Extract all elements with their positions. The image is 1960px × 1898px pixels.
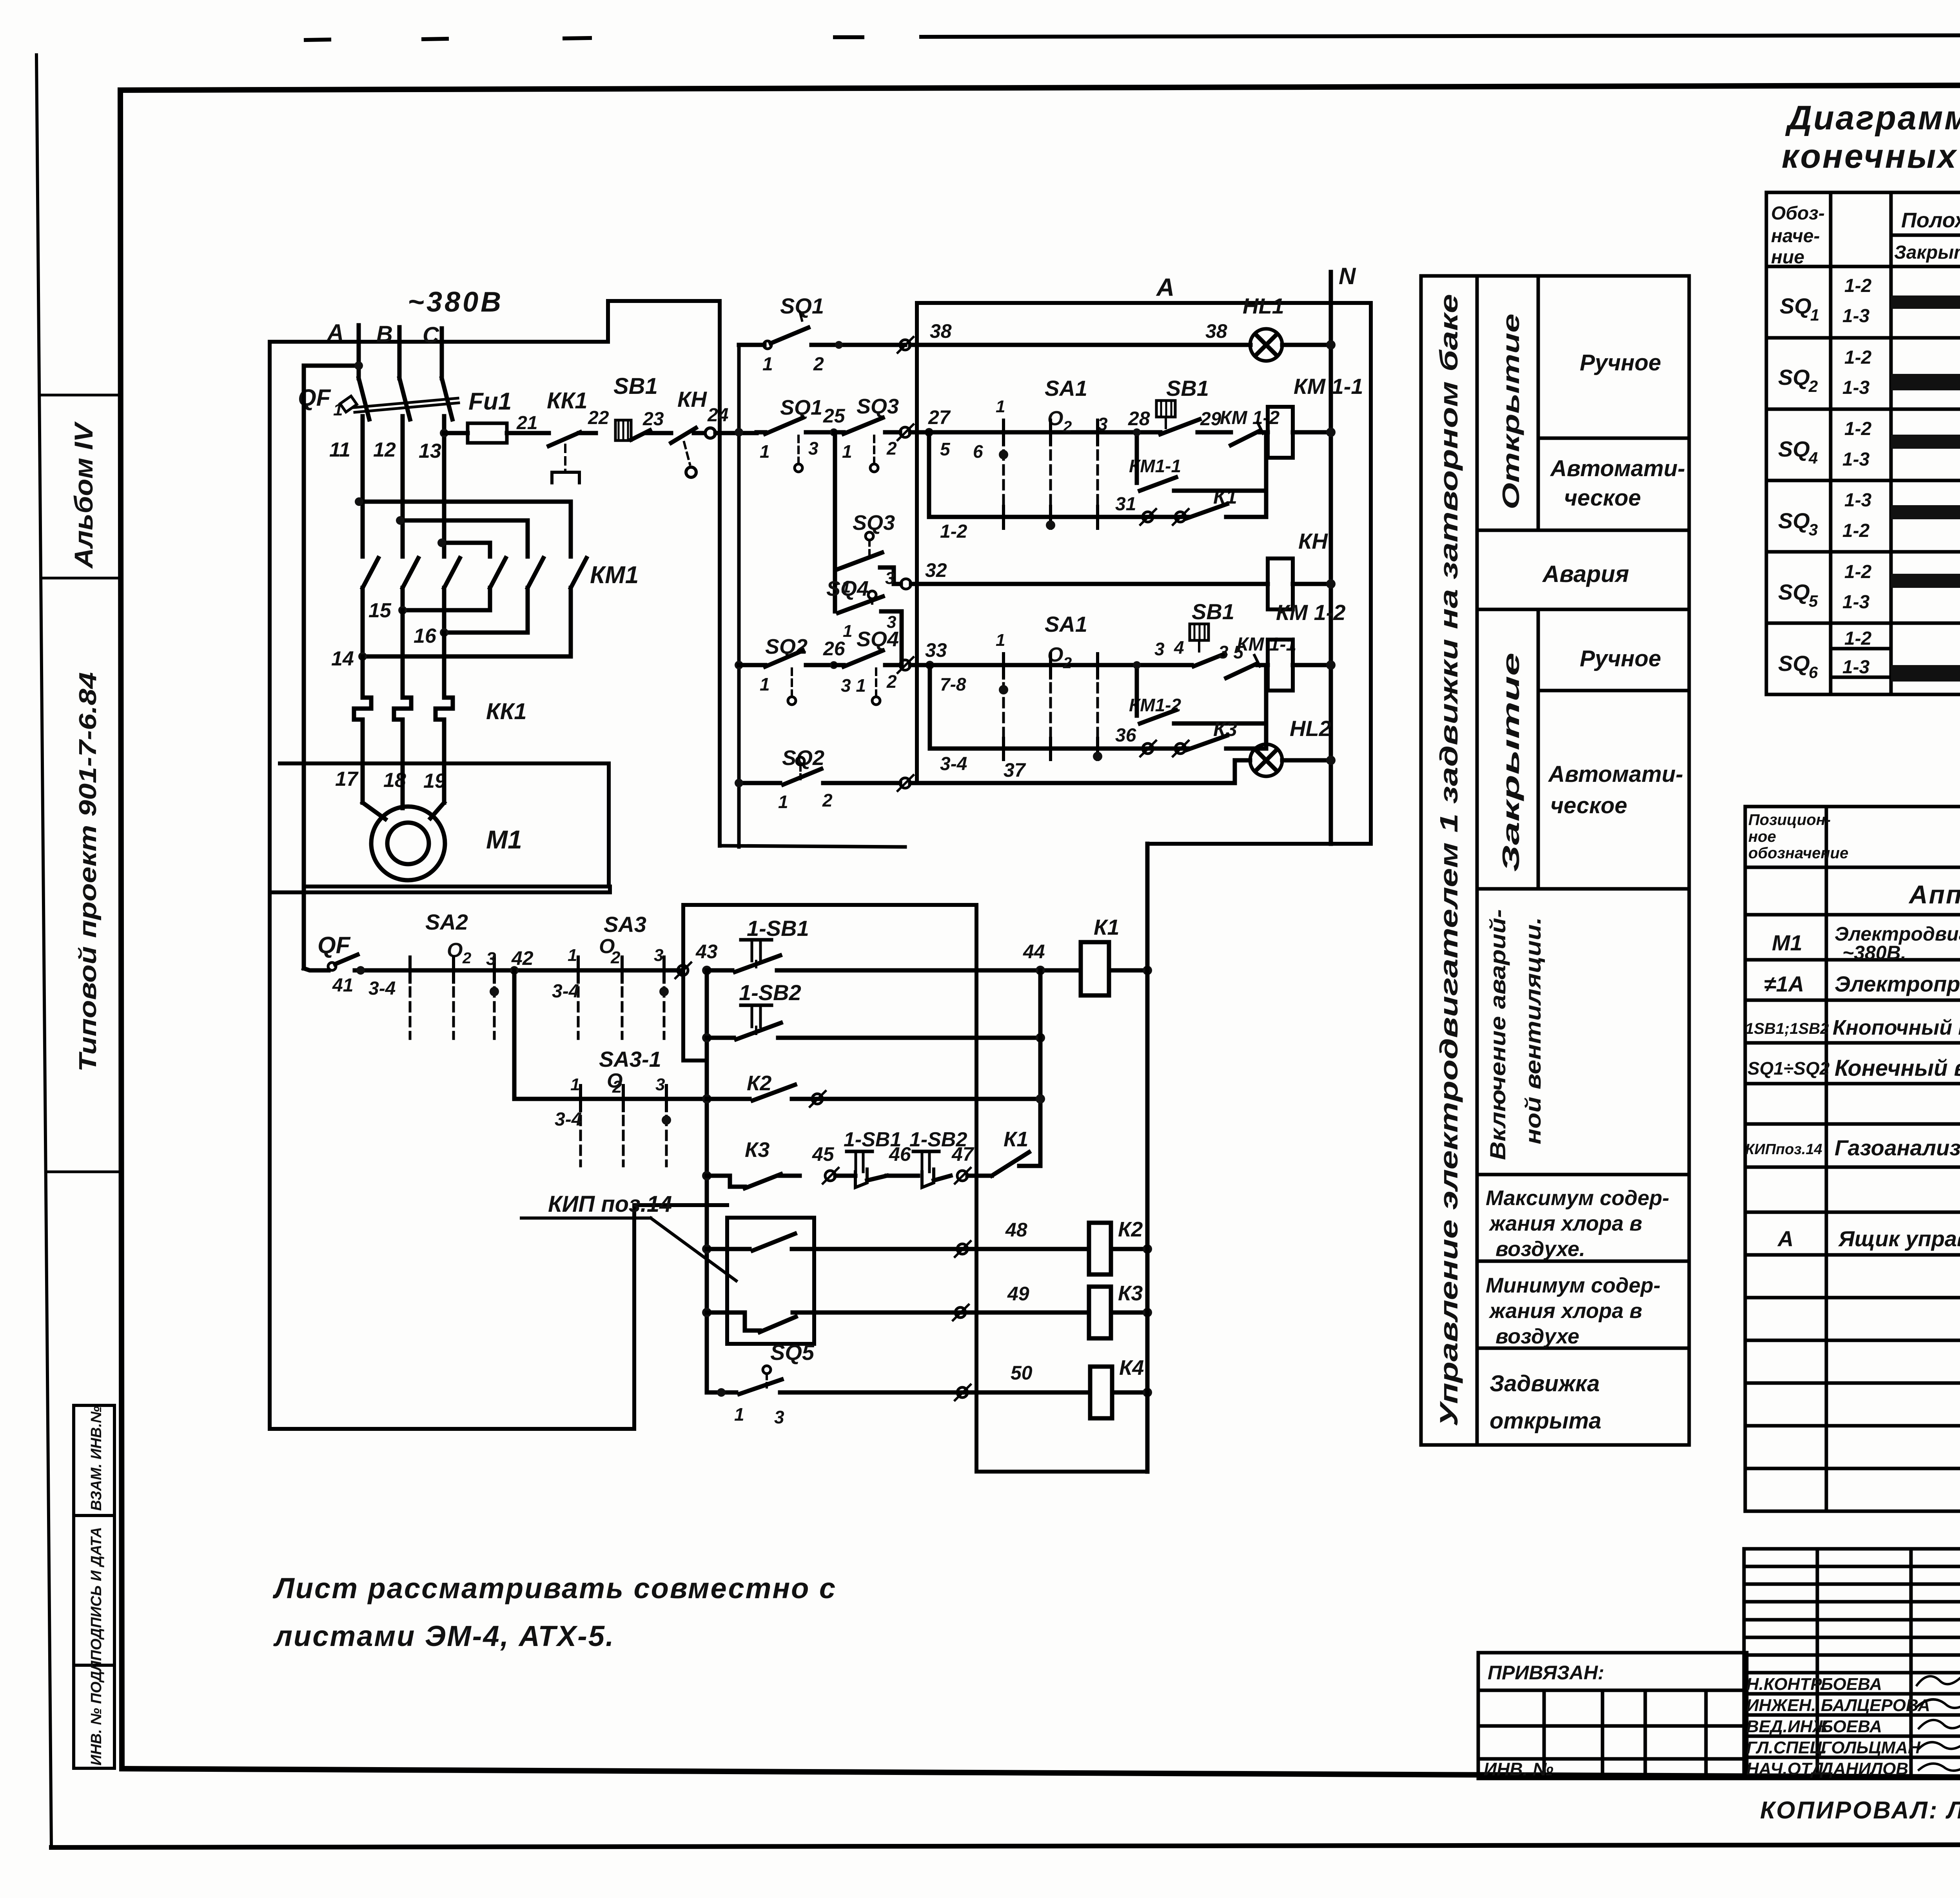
svg-text:Альбом IV: Альбом IV: [69, 421, 98, 569]
wire: right supply bus: [1145, 844, 1150, 1472]
svg-text:Ящик управления ЯОМ-5901-2674: Ящик управления ЯОМ-5901-2674-УХЛ4: [1838, 1226, 1960, 1251]
svg-text:КМ 1-2: КМ 1-2: [1220, 408, 1280, 428]
svg-text:≠1А: ≠1А: [1764, 972, 1804, 996]
svg-text:Аппаратура по месту.: Аппаратура по месту.: [1908, 880, 1960, 909]
function table cell: Автоматическое (открытие): [1550, 456, 1685, 511]
svg-text:2: 2: [822, 790, 833, 810]
svg-text:конечных выключателей.: конечных выключателей.: [1782, 138, 1960, 175]
svg-text:SQ3: SQ3: [857, 395, 899, 418]
parts row 1SB1;1SB2: [1745, 1016, 1960, 1039]
svg-text:С: С: [423, 323, 439, 348]
svg-text:Закрытие: Закрытие: [1498, 653, 1524, 872]
function table cell: Максимум содержания хлора: [1486, 1186, 1669, 1261]
svg-text:К1: К1: [1004, 1128, 1028, 1151]
svg-text:1-SB2: 1-SB2: [739, 980, 801, 1005]
svg-text:жания хлора в: жания хлора в: [1488, 1299, 1642, 1323]
svg-text:ИНЖЕН.: ИНЖЕН.: [1746, 1696, 1816, 1715]
svg-text:1-3: 1-3: [1844, 490, 1872, 511]
thermal relay KK1 heaters: [354, 698, 527, 763]
svg-text:SQ: SQ: [1778, 365, 1810, 390]
svg-text:SQ1: SQ1: [780, 294, 824, 318]
function table cell: Включение аварийной вентиляции: [1485, 909, 1545, 1160]
svg-text:Диаграмма замыкания: Диаграмма замыкания: [1785, 99, 1960, 137]
circuit breaker QF1: [298, 378, 459, 419]
lower box bottom outline: [270, 1205, 727, 1429]
svg-text:Закрыто: Закрыто: [1894, 242, 1960, 263]
svg-text:1: 1: [762, 354, 773, 375]
diagram header: Обозначение: [1771, 203, 1825, 268]
gas analyzer KIP poz.14 label: [521, 1191, 736, 1281]
pushbutton 1-SB2 (seal row): [702, 980, 1045, 1042]
svg-text:Автомати-: Автомати-: [1548, 761, 1683, 787]
svg-text:КК1: КК1: [547, 388, 588, 413]
seal contact KM1-1 (branch): [1129, 428, 1266, 491]
terminal ø (50): [955, 1385, 971, 1400]
svg-text:1-3: 1-3: [1842, 306, 1870, 326]
svg-text:К2: К2: [1118, 1218, 1143, 1241]
parts list table grid: [1745, 807, 1960, 1511]
svg-text:23: 23: [642, 409, 664, 430]
svg-text:2: 2: [886, 438, 897, 459]
wire: row to fuse: [444, 431, 468, 435]
svg-text:3-4: 3-4: [552, 981, 579, 1002]
wire: phase C stub: [440, 328, 444, 378]
row SQ1: [1780, 276, 1960, 326]
parts row 1A: [1764, 972, 1960, 996]
svg-text:44: 44: [1023, 941, 1045, 963]
fuse Fu1: [468, 388, 549, 443]
switch SA1 (lower): [996, 612, 1184, 745]
svg-text:SQ2: SQ2: [765, 635, 808, 658]
sheet outer top edge line: [306, 34, 1960, 40]
kopiroval line: [1760, 1795, 1960, 1854]
node 43: [695, 941, 718, 975]
switch SA2: [392, 910, 682, 1039]
svg-text:Газоанализатор ФЛГ— 3М: Газоанализатор ФЛГ— 3М: [1835, 1135, 1960, 1160]
function table cell: Автоматическое (закрытие): [1548, 761, 1683, 818]
signature rows text: [1746, 1675, 1930, 1778]
svg-text:Лист рассматривать совместно: Лист рассматривать совместно с: [272, 1572, 837, 1604]
svg-text:SA3: SA3: [604, 912, 646, 937]
svg-text:ние: ние: [1771, 247, 1804, 268]
function table grid: [1421, 276, 1689, 1445]
svg-text:КН: КН: [677, 387, 707, 412]
svg-text:Кнопочный пост ПКЕ-222-2 УЗ Т: Кнопочный пост ПКЕ-222-2 УЗ ТУ16 526.216…: [1833, 1016, 1960, 1039]
svg-text:42: 42: [511, 947, 534, 969]
svg-text:SQ: SQ: [1780, 294, 1811, 318]
node 26: [823, 638, 846, 669]
svg-text:2: 2: [1063, 654, 1072, 672]
parts row M1: [1772, 923, 1960, 964]
svg-text:1: 1: [1810, 306, 1819, 324]
title block: signature table grid: [1744, 1549, 1960, 1778]
svg-text:жания хлора в: жания хлора в: [1488, 1212, 1642, 1235]
svg-text:КИПпоз.14: КИПпоз.14: [1745, 1141, 1822, 1158]
svg-text:М1: М1: [1772, 930, 1802, 955]
svg-text:1-2: 1-2: [1842, 520, 1870, 541]
terminal ø (K2 row): [810, 1091, 826, 1107]
relay contact K2 (row): [702, 1071, 1045, 1104]
KIP upper contact (max chlorine): [702, 1234, 1089, 1254]
svg-text:открыта: открыта: [1490, 1408, 1601, 1434]
svg-text:29: 29: [1200, 409, 1221, 430]
svg-text:ИНВ. №: ИНВ. №: [1484, 1759, 1553, 1779]
switch SA3: [552, 912, 669, 1039]
svg-text:1: 1: [778, 792, 788, 812]
svg-text:ное: ное: [1748, 828, 1776, 845]
svg-text:Задвижка: Задвижка: [1490, 1371, 1600, 1396]
node 25: [823, 405, 846, 436]
svg-text:К3: К3: [745, 1138, 769, 1162]
svg-text:SQ3: SQ3: [853, 511, 895, 535]
svg-text:45: 45: [812, 1143, 835, 1165]
svg-text:14: 14: [331, 647, 354, 670]
svg-text:38: 38: [1205, 320, 1227, 342]
svg-text:38: 38: [930, 320, 952, 342]
limit switch box (left sub-box): [720, 348, 905, 847]
svg-text:ГОЛЬЦМАН: ГОЛЬЦМАН: [1821, 1738, 1921, 1757]
svg-text:Максимум содер-: Максимум содер-: [1486, 1186, 1669, 1210]
limit switch SQ5: [707, 1340, 1090, 1427]
svg-text:SQ4: SQ4: [857, 627, 899, 651]
svg-text:ческое: ческое: [1550, 793, 1627, 818]
limit switch SQ2 (row 37): [735, 746, 900, 812]
svg-text:3: 3: [774, 1407, 784, 1427]
svg-text:25: 25: [823, 405, 846, 427]
svg-text:2: 2: [1063, 418, 1072, 435]
KIP lower contact (min chlorine): [702, 1308, 1089, 1332]
svg-text:наче-: наче-: [1771, 226, 1820, 247]
svg-text:Ручное: Ручное: [1580, 646, 1661, 671]
svg-text:1-SB1: 1-SB1: [747, 916, 809, 941]
relay contact K1 (seal to 44): [967, 1128, 1040, 1176]
parts header: Позиционное обозначение: [1748, 811, 1848, 862]
svg-text:БАЛЦЕРОВА: БАЛЦЕРОВА: [1821, 1696, 1930, 1715]
svg-text:1-2: 1-2: [1844, 419, 1872, 439]
limit switch SQ1 (row 27): [760, 396, 834, 472]
svg-text:49: 49: [1007, 1283, 1029, 1305]
title block: privyazan table: [1478, 1653, 1747, 1778]
parts row KIP poz.14: [1745, 1135, 1960, 1160]
svg-text:33: 33: [925, 639, 947, 661]
pushbutton SB1 (power row): [613, 373, 666, 441]
svg-text:1: 1: [996, 397, 1005, 416]
svg-text:1: 1: [996, 631, 1005, 650]
svg-text:1-3: 1-3: [1842, 657, 1870, 678]
svg-text:НАЧ.ОТД: НАЧ.ОТД: [1746, 1759, 1824, 1778]
svg-text:КН: КН: [1298, 529, 1328, 553]
signature squiggles: [1917, 1675, 1960, 1771]
wire row 37 to HL2: [910, 760, 1250, 783]
svg-text:КИП поз.14: КИП поз.14: [548, 1191, 672, 1217]
switch SA3-1: [514, 970, 707, 1166]
svg-text:Электропривод задвижки 87А008: Электропривод задвижки 87А008: [1835, 972, 1960, 996]
terminal ø pair on branch: [1140, 509, 1189, 525]
terminal ø (48): [955, 1241, 971, 1257]
svg-text:3: 3: [486, 948, 496, 969]
sheet outer left edge line: [36, 55, 51, 1847]
svg-text:21: 21: [516, 413, 537, 433]
svg-text:SQ1÷SQ2: SQ1÷SQ2: [1748, 1058, 1830, 1079]
svg-text:3-4: 3-4: [555, 1109, 582, 1130]
svg-text:4: 4: [1808, 449, 1818, 467]
node 33: [925, 639, 947, 669]
svg-text:Fu1: Fu1: [468, 388, 512, 415]
power box outline: [270, 342, 610, 1429]
wire: vertical feed 43: [705, 970, 709, 1392]
svg-text:1-2: 1-2: [1844, 347, 1872, 368]
wire: phase B drop to KM1: [401, 416, 405, 557]
wire: tie vertical 44 column: [1038, 970, 1043, 1161]
box A (control cabinet) outline: [917, 303, 1371, 844]
svg-text:К2: К2: [747, 1071, 771, 1095]
svg-text:1: 1: [842, 441, 852, 462]
left stamp column boxes: [74, 1405, 114, 1768]
wire: phase A stub: [357, 325, 361, 378]
row SQ6: [1778, 628, 1960, 682]
wire: phase C drop to KM1: [442, 416, 446, 557]
svg-text:Минимум содер-: Минимум содер-: [1486, 1274, 1661, 1297]
svg-text:50: 50: [1011, 1362, 1033, 1384]
svg-text:HL1: HL1: [1243, 294, 1284, 318]
terminal ø (row 37): [898, 775, 913, 791]
svg-text:ПРИВЯЗАН:: ПРИВЯЗАН:: [1488, 1662, 1604, 1684]
svg-text:6: 6: [973, 441, 983, 462]
svg-text:15: 15: [368, 599, 392, 622]
svg-text:1-3: 1-3: [1842, 449, 1870, 470]
NC contact KM1-2 (row 27): [1220, 408, 1280, 445]
coil KM1-2: [1268, 600, 1346, 691]
note text bottom-left: [272, 1572, 837, 1652]
terminal ø (45): [823, 1168, 838, 1184]
svg-text:SA2: SA2: [425, 910, 468, 934]
contactor KM1 main contacts: [355, 497, 639, 661]
wire: phases from KM1 to KK1 heaters: [363, 610, 444, 698]
svg-text:46: 46: [889, 1143, 911, 1165]
svg-text:2: 2: [813, 354, 824, 375]
svg-text:37: 37: [1004, 759, 1026, 781]
svg-text:27: 27: [928, 406, 951, 428]
svg-text:М1: М1: [486, 825, 522, 854]
svg-text:SQ5: SQ5: [770, 1340, 815, 1365]
middle limit switch SQ4: [826, 577, 902, 665]
limit switch SQ3 (row 27): [834, 395, 900, 472]
svg-text:26: 26: [823, 638, 846, 660]
node 24 terminal: [705, 405, 757, 438]
lamp HL1: [1243, 294, 1336, 361]
svg-text:SB1: SB1: [1166, 376, 1209, 401]
function table cell: Минимум содержания хлора: [1486, 1274, 1661, 1348]
svg-text:1: 1: [734, 1404, 744, 1425]
svg-text:Открытие: Открытие: [1498, 314, 1524, 509]
wire: feed jog from power box to control section: [608, 301, 720, 846]
svg-text:ИНВ. № ПОДЛ: ИНВ. № ПОДЛ: [88, 1661, 105, 1766]
svg-text:2: 2: [612, 1077, 622, 1097]
svg-text:Положение задвижки: Положение задвижки: [1901, 208, 1960, 232]
wire row 38 to lamp: [910, 343, 1250, 347]
svg-text:КМ 1-2: КМ 1-2: [1276, 600, 1346, 625]
node 44: [1023, 941, 1045, 975]
pushbutton 1-SB2 (NC in row): [887, 1128, 967, 1187]
node 27: [925, 406, 951, 437]
svg-text:22: 22: [588, 408, 609, 428]
svg-text:Включение аварий-: Включение аварий-: [1485, 909, 1510, 1160]
svg-text:SQ4: SQ4: [826, 577, 869, 600]
parts row A (cabinet): [1777, 1226, 1960, 1251]
svg-text:Авария: Авария: [1542, 561, 1629, 587]
svg-text:К1: К1: [1094, 915, 1120, 939]
svg-text:3: 3: [1154, 639, 1165, 659]
svg-text:А: А: [1777, 1226, 1793, 1251]
relay contact KH (power row): [666, 387, 707, 477]
svg-text:КМ1: КМ1: [590, 562, 639, 589]
svg-text:48: 48: [1005, 1219, 1027, 1241]
relay contact K1 (branch): [1186, 486, 1266, 518]
svg-text:N: N: [1339, 263, 1356, 289]
tie vertical to coil input: [1264, 432, 1269, 517]
svg-text:ческое: ческое: [1564, 485, 1641, 511]
svg-text:32: 32: [925, 559, 947, 581]
svg-text:1: 1: [568, 946, 577, 965]
svg-text:ГЛ.СПЕЦ.: ГЛ.СПЕЦ.: [1746, 1738, 1827, 1757]
svg-text:SQ: SQ: [1778, 580, 1810, 604]
svg-text:К4: К4: [1119, 1356, 1144, 1380]
svg-text:3 1: 3 1: [841, 675, 866, 696]
svg-text:6: 6: [1809, 663, 1818, 682]
switch SA1 (upper): [996, 376, 1108, 513]
svg-text:SA1: SA1: [1045, 376, 1087, 401]
svg-text:SQ: SQ: [1778, 651, 1810, 676]
pushbutton 1-SB1 (NC in row): [835, 1128, 901, 1187]
node 42: [510, 947, 534, 975]
function table cell: Задвижка открыта: [1490, 1371, 1601, 1434]
svg-text:2: 2: [886, 671, 897, 692]
svg-text:БОЕВА: БОЕВА: [1821, 1717, 1882, 1736]
svg-text:3: 3: [655, 1075, 665, 1094]
svg-text:43: 43: [695, 941, 718, 963]
svg-text:1-2: 1-2: [1844, 562, 1872, 582]
wire: phase B stub: [397, 327, 402, 378]
tie vertical to coil2 input: [1264, 665, 1269, 749]
relay coil K2: [1089, 1218, 1152, 1274]
svg-text:БОЕВА: БОЕВА: [1821, 1675, 1882, 1694]
wire: phase A drop to KM1: [361, 416, 365, 557]
svg-text:SB1: SB1: [613, 373, 658, 399]
svg-text:Автомати-: Автомати-: [1550, 456, 1685, 481]
NC contact KM1-1 (row 33): [1226, 634, 1296, 678]
relay contact K3 (NC row): [702, 1138, 800, 1188]
terminal ø (row 38): [898, 337, 913, 353]
terminal ø (47): [955, 1168, 971, 1184]
relay contact K3 (branch): [1186, 718, 1266, 750]
terminal ø (row 27): [898, 424, 913, 440]
svg-text:36: 36: [1115, 725, 1136, 746]
pushbutton SB1 (row 33): [1190, 599, 1234, 666]
terminal ø (row 33): [898, 657, 913, 673]
relay coil K4: [1090, 1356, 1152, 1418]
svg-text:3-4: 3-4: [368, 978, 396, 999]
svg-text:5: 5: [940, 439, 951, 459]
limit switch SQ4 (row 33): [834, 627, 900, 705]
local buttons box: [683, 905, 1147, 1472]
wire row 27: [910, 430, 1160, 435]
svg-text:2: 2: [1808, 377, 1818, 395]
row SQ2: [1778, 347, 1960, 398]
svg-text:3: 3: [654, 946, 663, 965]
svg-text:7-8: 7-8: [940, 674, 966, 694]
parts row SQ1-SQ2: [1748, 1050, 1960, 1129]
svg-text:11: 11: [329, 439, 350, 461]
wire feed 24 into control rows: [735, 428, 762, 437]
svg-text:SQ: SQ: [1778, 508, 1810, 533]
svg-text:28: 28: [1128, 408, 1150, 430]
svg-text:обозначение: обозначение: [1748, 845, 1848, 862]
svg-text:5: 5: [1809, 592, 1818, 610]
svg-text:Управление электродвигателем 1: Управление электродвигателем 1 задвижки …: [1435, 294, 1463, 1427]
svg-text:А: А: [327, 320, 344, 345]
limit switch SQ1 (row 38): [739, 294, 905, 375]
svg-text:~380В: ~380В: [408, 286, 503, 318]
N neutral bus: [1331, 263, 1356, 844]
svg-text:4: 4: [1174, 637, 1184, 658]
svg-text:3-4: 3-4: [940, 754, 967, 774]
svg-text:2: 2: [610, 948, 621, 967]
svg-text:SQ1: SQ1: [780, 396, 822, 419]
svg-text:12: 12: [373, 439, 396, 461]
seal contact KM1-2 (branch): [1129, 661, 1266, 723]
sheet outer bottom edge line: [51, 1844, 1960, 1847]
relay coil K3: [1089, 1282, 1152, 1338]
svg-text:ВЗАМ. ИНВ.№: ВЗАМ. ИНВ.№: [88, 1406, 105, 1511]
svg-text:3: 3: [808, 438, 818, 459]
svg-text:17: 17: [335, 768, 359, 790]
svg-text:листами ЭМ-4, АТХ-5.: листами ЭМ-4, АТХ-5.: [273, 1620, 615, 1652]
svg-text:SA1: SA1: [1045, 612, 1087, 636]
svg-text:QF: QF: [318, 932, 351, 958]
lamp HL2: [1250, 716, 1336, 776]
svg-text:1-3: 1-3: [1842, 377, 1870, 398]
terminal ø (49): [953, 1305, 969, 1320]
svg-text:ной вентиляции.: ной вентиляции.: [1521, 917, 1545, 1144]
row SQ5: [1778, 562, 1960, 613]
svg-text:К3: К3: [1118, 1282, 1143, 1305]
svg-text:Типовой проект 901-7-6.84: Типовой проект 901-7-6.84: [74, 672, 102, 1072]
svg-text:Позицион-: Позицион-: [1748, 811, 1831, 828]
limit switch SQ2 (row 33): [735, 635, 834, 705]
wire row 33: [910, 663, 1192, 667]
terminal circle (row 32): [901, 579, 911, 589]
svg-text:16: 16: [414, 625, 437, 647]
diagram title: [1782, 99, 1960, 175]
svg-text:41: 41: [332, 975, 353, 996]
thermal relay contact KK1: [547, 388, 596, 483]
svg-text:1-2: 1-2: [940, 521, 967, 542]
svg-text:31: 31: [1115, 494, 1136, 515]
wire branch row 1-2: [929, 506, 1188, 530]
svg-text:А: А: [1156, 273, 1174, 301]
svg-text:47: 47: [951, 1143, 975, 1165]
relay coil K1: [1081, 915, 1152, 995]
svg-text:13: 13: [419, 440, 441, 462]
svg-text:1: 1: [760, 441, 770, 462]
pushbutton SB1 (row 27): [1156, 376, 1231, 434]
row SQ3: [1778, 490, 1960, 541]
motor M1: [363, 763, 522, 880]
svg-text:воздухе.: воздухе.: [1495, 1237, 1585, 1261]
svg-text:КОПИРОВАЛ: ЛОГИНОВА: КОПИРОВАЛ: ЛОГИНОВА: [1760, 1797, 1960, 1824]
junction node 13 to fuse: [440, 429, 448, 437]
svg-text:~380В.: ~380В.: [1842, 942, 1906, 964]
